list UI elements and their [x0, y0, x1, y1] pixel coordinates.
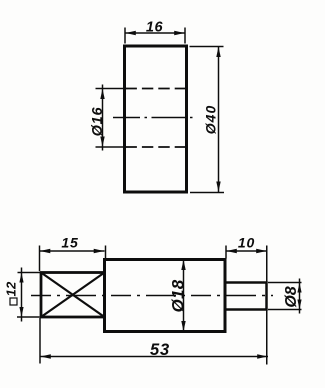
arrow left dim 15: [40, 249, 51, 253]
svg-text:15: 15: [61, 235, 78, 251]
arrow right dim 10: [256, 249, 267, 253]
dimension line 16: [125, 32, 185, 34]
svg-text:Ø18: Ø18: [169, 279, 188, 312]
arrow up dim Ø40: [216, 47, 220, 57]
extension line left of dim 10: [225, 246, 227, 259]
extension line lower of dim □12: [17, 316, 40, 318]
svg-text:16: 16: [146, 20, 164, 36]
diagonal 2 of square X: [41, 273, 105, 318]
arrow up dim □12: [19, 273, 23, 283]
dimension line Ø8: [299, 279, 301, 314]
hidden line upper (bore Ø16): [126, 88, 187, 90]
middle cylinder Ø18 outline: [105, 260, 226, 332]
dimension line 15: [40, 250, 105, 252]
arrow down dim Ø8: [297, 300, 301, 310]
arrow right dim 16: [174, 31, 185, 35]
arrow up dim Ø8: [297, 283, 301, 293]
extension line right of dim 10: [266, 246, 268, 283]
arrow down dim Ø16: [100, 137, 104, 147]
arrow down dim □12: [19, 307, 23, 317]
extension line bottom of dim Ø40: [190, 192, 224, 194]
extension line left of dim 15: [39, 246, 41, 272]
extension line right of dim 16: [184, 28, 186, 44]
svg-text:53: 53: [150, 341, 170, 359]
diagonal 1 of square X: [41, 273, 105, 318]
arrow right dim 15: [94, 249, 105, 253]
svg-text:10: 10: [238, 235, 255, 251]
extension line right of dim 53: [266, 310, 268, 365]
arrow down dim Ø18: [181, 321, 185, 331]
extension line upper of dim Ø8: [268, 282, 302, 284]
square end section with X (side view, □12): [41, 273, 105, 318]
arrow down dim Ø40: [216, 182, 220, 192]
arrow right dim 53: [257, 354, 268, 358]
right shaft end Ø8 outline: [225, 283, 267, 310]
square symbol of dim □12: [10, 298, 17, 305]
hidden line lower (bore Ø16): [126, 146, 187, 148]
arrow left dim 16: [125, 31, 136, 35]
extension line upper of dim Ø16: [96, 88, 124, 90]
extension line lower of dim Ø16: [96, 146, 124, 148]
center line front view: [113, 117, 196, 119]
svg-text:Ø8: Ø8: [283, 286, 300, 307]
extension line right of dim 15: [105, 246, 107, 259]
svg-text:Ø16: Ø16: [90, 106, 106, 136]
extension line left of dim 53: [39, 318, 41, 364]
arrow up dim Ø18: [181, 260, 185, 270]
arrow left dim 10: [226, 249, 237, 253]
extension line upper of dim □12: [18, 272, 41, 274]
dimension line 53: [40, 356, 268, 358]
extension line top of dim Ø40: [190, 46, 224, 48]
extension line lower of dim Ø8: [268, 309, 302, 311]
arrow up dim Ø16: [100, 89, 104, 99]
dimension line Ø18: [183, 260, 185, 332]
dimension line Ø40: [218, 47, 220, 193]
svg-text:12: 12: [4, 281, 19, 297]
svg-text:Ø40: Ø40: [203, 105, 219, 134]
dimension line □12: [21, 268, 23, 322]
dimension line 10: [226, 250, 267, 252]
center line bottom view: [31, 295, 273, 297]
arrow left dim 53: [40, 354, 51, 358]
front view outline (cylinder Ø40 side view): [125, 46, 187, 192]
extension line left of dim 16: [124, 28, 126, 44]
dimension line Ø16: [102, 85, 104, 151]
